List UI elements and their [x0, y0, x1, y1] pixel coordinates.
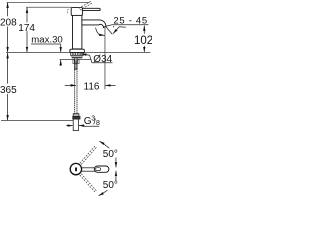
metal washer below — [72, 55, 82, 57]
extension line cap top (174 reference) — [26, 6, 71, 8]
dimension 365 line upper segment with up arrow — [7, 53, 9, 84]
hex nut of hose end — [73, 116, 81, 119]
thread ticks — [74, 60, 77, 70]
flexible hose (braided) — [74, 70, 76, 114]
deck bottom line right — [77, 58, 91, 60]
lower 50° arc with arrows — [99, 171, 116, 196]
svg-text:50°: 50° — [103, 180, 118, 191]
svg-text:102: 102 — [134, 35, 152, 47]
dimension 116 left arrow — [65, 84, 76, 86]
deck bottom line left — [60, 58, 75, 60]
dimension 102 lower arrow — [143, 46, 145, 52]
spout (tube curving down to outlet) — [82, 20, 106, 28]
25-45 leader to outlet — [106, 25, 112, 27]
Ø34 leader with arrow to shank — [81, 54, 92, 63]
pivot inner slot — [75, 167, 77, 171]
label 50° upper — [102, 148, 117, 157]
svg-text:174: 174 — [18, 23, 35, 34]
dimension 174 line lower segment with down arrow — [26, 31, 28, 52]
water stream line from outlet — [106, 27, 112, 35]
max.30 leader down arrow to deck top — [60, 44, 62, 52]
spout outlet vertical extension line — [104, 27, 106, 90]
dimension 208 line lower segment with down arrow — [7, 27, 9, 52]
svg-text:Ø34: Ø34 — [93, 54, 112, 65]
svg-text:50°: 50° — [103, 149, 118, 160]
dashed swing arc left of cap — [67, 9, 68, 14]
base flange — [70, 49, 84, 52]
extension line top of raised lever (208 reference) — [7, 1, 90, 3]
solid lever bar — [82, 8, 100, 10]
upper 50° arc with arrows — [99, 141, 116, 167]
knob inner slot — [96, 168, 101, 171]
faucet body — [73, 15, 82, 49]
dashed lever rotated up 50° (double dashed) — [80, 146, 97, 165]
max.30 up arrow to deck bottom — [60, 60, 62, 66]
G3/8 underline — [83, 125, 100, 127]
dimension 102 upper arrow — [143, 26, 145, 34]
dashed raised lever (double dashed line) — [79, 1, 92, 8]
aerator swivel curved arrow — [96, 28, 101, 35]
pivot circle — [70, 163, 81, 174]
lever shaft (top view) — [82, 167, 96, 169]
deck / countertop top line — [6, 51, 151, 53]
G3/8 right arrow pointing left at nipple — [79, 125, 85, 127]
label 50° lower — [102, 181, 117, 190]
svg-text:208: 208 — [0, 18, 17, 29]
G3/8 left arrow pointing right at nipple — [66, 125, 72, 127]
bottom extension line (hose end, 365 reference) — [1, 120, 78, 122]
svg-text:116: 116 — [84, 81, 100, 92]
stream direction arrow (bent, pointing down-left) — [113, 27, 126, 34]
faucet cap (handle base) — [71, 8, 82, 16]
dimension 116 right arrow — [105, 84, 115, 86]
hose crimp collar — [73, 114, 79, 117]
dimension 365 line lower segment with down arrow — [7, 94, 9, 120]
rubber washer under deck — [71, 53, 84, 56]
lever knob (top view) — [94, 166, 109, 172]
locknut — [73, 60, 79, 64]
threaded stud — [74, 58, 76, 70]
connection nipple G3/8 — [73, 119, 78, 131]
dimension 174 line upper segment with up arrow — [26, 8, 28, 23]
small tick at stream reference — [113, 26, 115, 28]
dimension 208 line upper segment with up arrow — [7, 3, 9, 17]
svg-text:365: 365 — [0, 85, 17, 96]
dashed lever rotated down 50° (double dashed) — [80, 174, 97, 193]
